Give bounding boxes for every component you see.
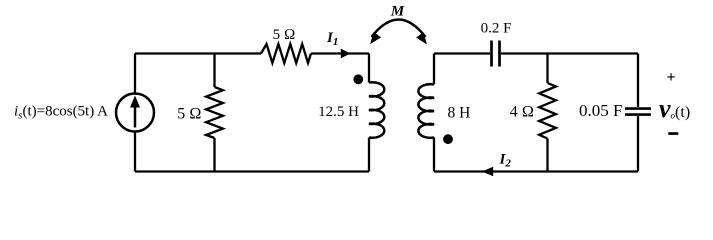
capacitor C2 0.05F plates — [625, 107, 651, 110]
current source arrow — [134, 106, 137, 128]
resistor R series 5ohm — [261, 44, 311, 63]
resistor R3 4ohm branch lower — [546, 139, 548, 172]
capacitor C1 0.2F plates — [490, 41, 493, 67]
wire left loop left upper — [134, 54, 136, 94]
svg-text:0.2 F: 0.2 F — [481, 21, 512, 37]
wire right loop left upper — [433, 54, 435, 85]
svg-text:4 Ω: 4 Ω — [510, 104, 534, 121]
wire middle branch lower — [213, 138, 215, 172]
wire right loop right upper — [637, 54, 639, 108]
svg-text:+: + — [666, 69, 675, 86]
inductor L2 8H — [418, 84, 434, 138]
current source circle — [116, 94, 154, 132]
svg-text:12.5 H: 12.5 H — [318, 104, 359, 120]
wire left loop left lower — [134, 132, 136, 172]
resistor R3 4ohm zigzag — [539, 83, 556, 139]
mutual coupling arc M — [372, 20, 426, 38]
svg-text:5 Ω: 5 Ω — [273, 27, 296, 43]
wire left loop right lower — [368, 138, 370, 172]
wire right loop right lower — [637, 116, 639, 172]
arrow I1 on top wire — [341, 49, 351, 59]
svg-text:8 H: 8 H — [448, 104, 471, 121]
svg-text:M: M — [390, 4, 405, 20]
resistor R3 4ohm branch upper — [546, 54, 548, 84]
arrow I2 on bottom wire — [482, 167, 493, 177]
inductor L1 12.5H — [369, 82, 384, 138]
dot L1 polarity — [353, 74, 363, 84]
svg-text:0.05 F: 0.05 F — [579, 101, 622, 120]
svg-text:5 Ω: 5 Ω — [177, 105, 201, 122]
wire right loop bottom — [434, 170, 638, 172]
wire left loop top — [135, 52, 261, 54]
wire right loop top right — [501, 52, 638, 54]
wire right loop left lower — [433, 138, 435, 172]
arrowhead M left — [370, 32, 381, 44]
wire left loop bottom — [135, 170, 369, 172]
label minus — [668, 132, 678, 135]
dot L2 polarity — [443, 134, 453, 144]
wire left loop right upper — [368, 54, 370, 83]
svg-text:is(t)=8cos(5t) A: is(t)=8cos(5t) A — [14, 104, 108, 122]
wire middle branch upper — [213, 54, 215, 88]
resistor R parallel 5ohm — [206, 87, 223, 138]
wire right loop top left — [434, 52, 490, 54]
arrowhead M right — [416, 32, 427, 44]
wire top right of resistor — [311, 52, 369, 54]
